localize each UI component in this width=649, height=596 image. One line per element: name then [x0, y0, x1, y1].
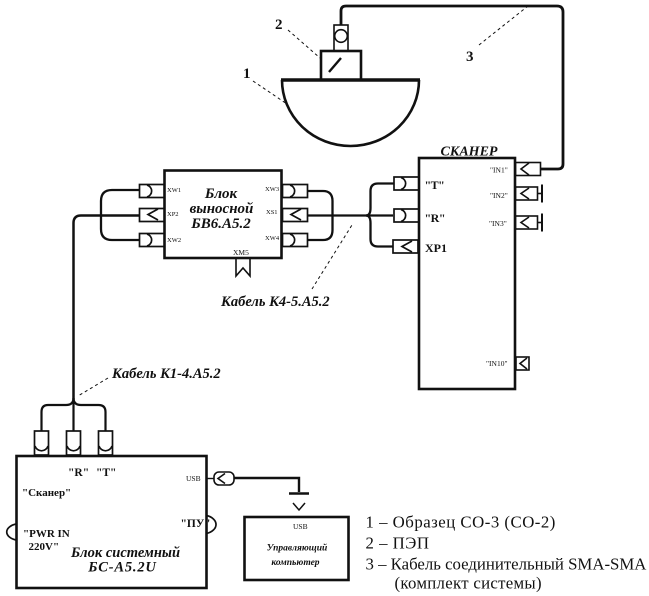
- transducer PEP body: [321, 51, 361, 80]
- svg-text:1 – Образец СО-3 (СО-2): 1 – Образец СО-3 (СО-2): [366, 513, 556, 532]
- svg-text:3: 3: [466, 49, 474, 65]
- wire cable K1-4 fan right: [74, 398, 106, 431]
- svg-text:220V": 220V": [29, 541, 60, 553]
- port IN2 connector: [516, 185, 543, 203]
- svg-text:2 – ПЭП: 2 – ПЭП: [366, 534, 430, 553]
- svg-text:(комплект системы): (комплект системы): [395, 574, 542, 593]
- wire cable K4-5 bottom branch: [308, 216, 333, 241]
- wire cable K4-5 top branch: [308, 191, 333, 216]
- svg-text:XW3: XW3: [265, 186, 279, 193]
- svg-text:XW4: XW4: [265, 235, 280, 242]
- BS PU connector: [207, 516, 217, 534]
- wire cable K4-5 branch to XP1: [366, 216, 393, 247]
- svg-text:XW2: XW2: [167, 237, 181, 244]
- svg-text:"Т": "Т": [425, 178, 445, 192]
- port IN3 connector: [516, 214, 543, 232]
- svg-text:"PWR IN: "PWR IN: [23, 528, 70, 540]
- cable K1-4 callout line: [78, 378, 108, 396]
- sample CO-3 dome: [281, 80, 420, 146]
- svg-text:компьютер: компьютер: [271, 558, 319, 568]
- svg-text:ХР1: ХР1: [425, 241, 447, 255]
- USB wire end bar: [289, 492, 309, 495]
- svg-text:2: 2: [275, 17, 283, 33]
- svg-text:USB: USB: [293, 522, 308, 531]
- svg-text:XW1: XW1: [167, 187, 181, 194]
- svg-text:"Т": "Т": [96, 467, 116, 479]
- svg-text:3 – Кабель соединительный SMA: 3 – Кабель соединительный SMA-SMA: [366, 555, 647, 574]
- wire cable K4-5 branch to T: [366, 184, 394, 216]
- BS USB connector: [207, 472, 235, 485]
- svg-text:"IN1": "IN1": [490, 166, 508, 175]
- port R connector: [394, 209, 419, 222]
- svg-text:"R": "R": [68, 467, 89, 479]
- BS top connector middle: [67, 431, 81, 455]
- svg-text:"ПУ": "ПУ": [181, 518, 211, 530]
- port T connector: [394, 177, 419, 190]
- computer box: [245, 517, 349, 580]
- svg-text:ХР2: ХР2: [167, 211, 179, 218]
- transducer connector: [334, 25, 348, 51]
- remote unit BV6.A5.2 block: [165, 171, 282, 259]
- svg-text:Кабель К4-5.А5.2: Кабель К4-5.А5.2: [220, 294, 330, 310]
- svg-text:"IN3": "IN3": [489, 219, 507, 228]
- svg-text:Управляющий: Управляющий: [267, 543, 328, 554]
- wire cable K4-5 trunk: [308, 214, 394, 216]
- BV left port XP2 connector: [140, 209, 165, 222]
- svg-text:Кабель К1-4.А5.2: Кабель К1-4.А5.2: [111, 366, 221, 382]
- wire cable K1-4 top branch: [101, 190, 140, 216]
- wire cable K1-4 fan middle: [72, 400, 74, 431]
- wire USB to computer: [234, 478, 299, 492]
- port XP1 connector: [393, 240, 418, 253]
- wire cable K1-4 trunk: [74, 216, 140, 401]
- port IN1 connector: [516, 163, 541, 176]
- remote unit title: [190, 186, 254, 232]
- svg-text:XS1: XS1: [266, 209, 278, 216]
- svg-text:"IN10": "IN10": [486, 359, 508, 368]
- svg-text:Блок: Блок: [204, 186, 238, 202]
- BV left port XW2 connector: [140, 234, 165, 247]
- svg-text:ХМ5: ХМ5: [233, 248, 249, 257]
- connector XM5 pennant: [236, 258, 250, 276]
- BV right port XS1 connector: [283, 209, 308, 222]
- callout label 3: [466, 6, 528, 65]
- svg-text:БВ6.А5.2: БВ6.А5.2: [190, 216, 251, 232]
- USB plug arrow: [293, 503, 305, 510]
- BV right port XW4 connector: [283, 234, 308, 247]
- svg-text:"Сканер": "Сканер": [22, 487, 71, 499]
- svg-text:USB: USB: [186, 474, 201, 483]
- wire cable K1-4 bottom branch: [101, 216, 140, 241]
- callout label 1: [243, 66, 287, 104]
- wire cable K1-4 fan left: [42, 398, 74, 431]
- callout label 2: [275, 17, 320, 58]
- port IN10 connector: [516, 357, 529, 370]
- BS top connector left: [35, 431, 49, 455]
- cable K4-5 callout line: [312, 225, 352, 289]
- BS top connector right: [99, 431, 113, 455]
- BV left port XW1 connector: [140, 185, 165, 198]
- svg-text:"IN2": "IN2": [490, 191, 508, 200]
- scanner block: [419, 158, 515, 389]
- svg-text:выносной: выносной: [190, 201, 254, 217]
- BS PWR connector: [7, 524, 16, 540]
- system unit BS block: [17, 456, 207, 588]
- svg-text:"R": "R": [425, 211, 446, 225]
- svg-text:БС-А5.2U: БС-А5.2U: [87, 560, 157, 576]
- svg-text:1: 1: [243, 66, 251, 82]
- BV right port XW3 connector: [283, 185, 308, 198]
- wire PEP to IN1: [341, 6, 563, 169]
